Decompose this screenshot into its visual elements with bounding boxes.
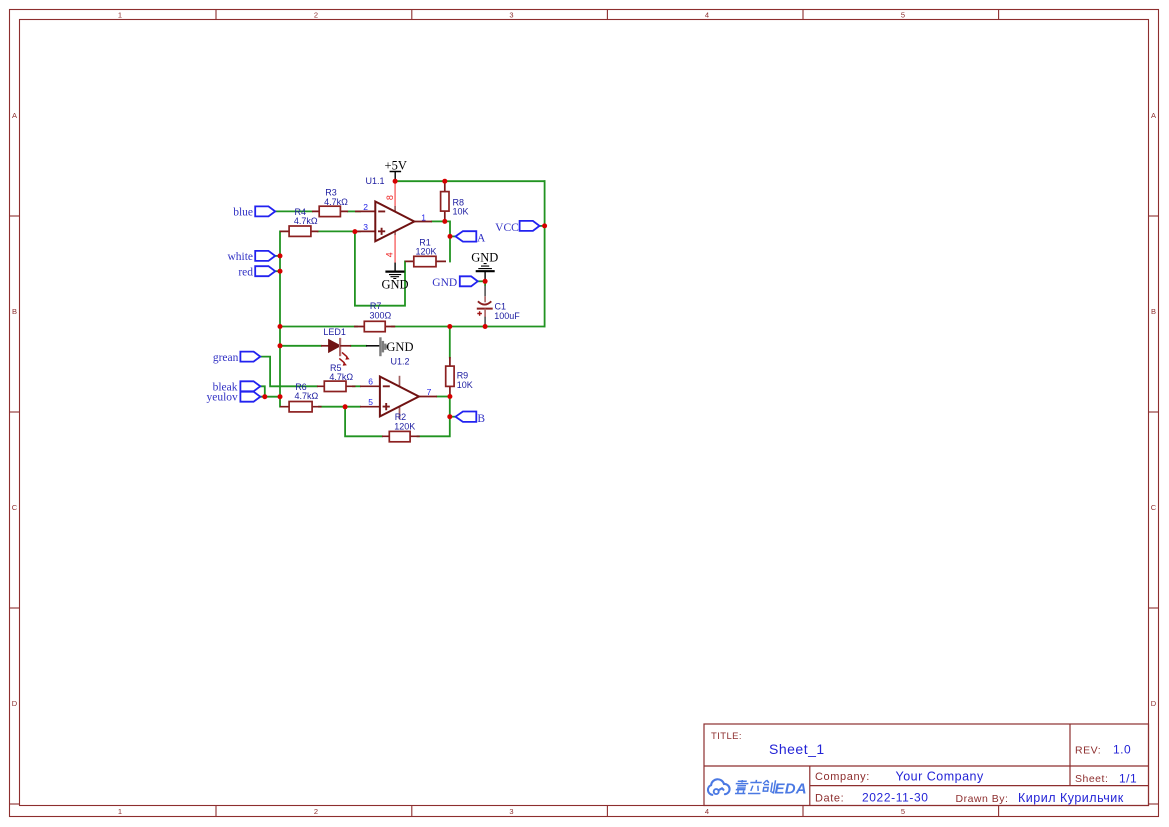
- port bleak: [213, 381, 261, 393]
- wire port B stub: [450, 416, 456, 418]
- junction GND node: [483, 279, 488, 284]
- ground symbol GND under U1.1: [381, 262, 408, 291]
- port red: [238, 266, 275, 278]
- junction R8 top: [442, 179, 447, 184]
- wire grean to R5: [260, 357, 317, 387]
- resistor R7: [354, 301, 395, 332]
- wire blue to R3: [275, 210, 312, 212]
- wire +5V rail top: [395, 180, 545, 182]
- wire LED right: [351, 345, 366, 347]
- junction U1.1 output: [442, 219, 447, 224]
- svg-text:7: 7: [427, 387, 432, 397]
- svg-text:B: B: [477, 413, 485, 425]
- svg-text:TITLE:: TITLE:: [711, 731, 742, 742]
- wire pin7 to junction: [437, 396, 450, 398]
- svg-text:1/1: 1/1: [1119, 772, 1137, 786]
- junction U1.2 pin5: [343, 404, 348, 409]
- svg-text:Кирил Курильчик: Кирил Курильчик: [1018, 791, 1124, 805]
- port A: [456, 231, 487, 244]
- svg-text:2: 2: [314, 807, 318, 816]
- junction port A: [448, 234, 453, 239]
- svg-text:yeulov: yeulov: [206, 391, 238, 403]
- svg-text:8: 8: [385, 195, 395, 200]
- svg-text:100uF: 100uF: [494, 311, 520, 321]
- capacitor C1: [477, 281, 520, 326]
- svg-text:GND: GND: [471, 250, 498, 264]
- svg-text:1.0: 1.0: [1113, 743, 1131, 757]
- svg-text:GND: GND: [432, 277, 457, 289]
- resistor R8: [441, 181, 469, 221]
- svg-text:Date:: Date:: [815, 793, 844, 805]
- resistor R9: [446, 357, 473, 397]
- svg-text:120K: 120K: [394, 421, 415, 431]
- wire R8 output corner: [445, 221, 450, 261]
- junction C1 bottom: [483, 324, 488, 329]
- resistor R6: [280, 382, 322, 412]
- svg-text:6: 6: [368, 377, 373, 387]
- svg-text:10K: 10K: [453, 206, 469, 216]
- junction port VCC: [542, 223, 547, 228]
- ground symbol GND gray at LED: [366, 337, 413, 356]
- wire GND port stub: [478, 280, 485, 282]
- junction +5V rail: [393, 179, 398, 184]
- svg-text:+5V: +5V: [385, 159, 407, 173]
- svg-text:A: A: [12, 111, 17, 120]
- junction yeulov net: [278, 394, 283, 399]
- svg-text:3: 3: [509, 11, 513, 20]
- wire feedback U1.1: [355, 232, 405, 306]
- resistor R3: [312, 188, 348, 217]
- port yeulov: [206, 391, 260, 403]
- svg-text:D: D: [12, 699, 18, 708]
- wire VCC port stub: [540, 225, 545, 227]
- svg-text:EDA: EDA: [775, 781, 807, 798]
- port VCC: [495, 221, 539, 234]
- wire R3 to pin2: [348, 210, 360, 212]
- svg-text:GND: GND: [381, 277, 408, 291]
- svg-text:GND: GND: [386, 340, 413, 354]
- svg-text:4: 4: [705, 11, 709, 20]
- svg-text:A: A: [1151, 111, 1156, 120]
- port B: [456, 412, 486, 425]
- wire net blue vertical x280: [279, 231, 281, 406]
- wire R5 to pin6: [353, 385, 360, 387]
- svg-text:Drawn By:: Drawn By:: [956, 793, 1009, 805]
- svg-text:B: B: [12, 307, 17, 316]
- svg-text:U1.2: U1.2: [391, 356, 410, 366]
- junction port B: [447, 414, 452, 419]
- svg-text:2: 2: [363, 202, 368, 212]
- svg-text:Sheet_1: Sheet_1: [769, 741, 825, 757]
- ground symbol GND above C1: [471, 250, 498, 281]
- port white: [227, 251, 275, 263]
- port blue: [233, 206, 275, 218]
- wire VCC right rail: [544, 181, 546, 326]
- svg-text:5: 5: [901, 807, 905, 816]
- svg-text:C1: C1: [495, 302, 507, 312]
- svg-text:3: 3: [363, 222, 368, 232]
- resistor R5: [317, 363, 356, 391]
- wire R6 to pin5: [319, 406, 360, 408]
- svg-text:4.7kΩ: 4.7kΩ: [295, 391, 319, 401]
- wire red stub: [275, 270, 280, 272]
- svg-text:2: 2: [314, 11, 318, 20]
- wire white stub: [275, 255, 280, 257]
- wire pin1 to R8: [432, 220, 445, 222]
- wire bottom long net right part: [392, 326, 545, 328]
- junction bleak-yeulov: [262, 394, 267, 399]
- junction U1.2 output: [447, 394, 452, 399]
- svg-text:white: white: [227, 251, 253, 263]
- port grean: [213, 352, 260, 364]
- svg-text:Your Company: Your Company: [896, 770, 984, 784]
- svg-text:3: 3: [509, 807, 513, 816]
- svg-text:4.7kΩ: 4.7kΩ: [324, 197, 348, 207]
- junction long net R9: [447, 324, 452, 329]
- wire junction to R9: [449, 327, 451, 358]
- wire LED left: [280, 345, 321, 347]
- svg-text:1: 1: [118, 807, 122, 816]
- svg-text:blue: blue: [233, 207, 253, 219]
- logo: [708, 779, 730, 795]
- svg-text:Company:: Company:: [815, 771, 870, 783]
- svg-text:D: D: [1151, 699, 1157, 708]
- svg-text:4.7kΩ: 4.7kΩ: [294, 216, 318, 226]
- svg-text:1: 1: [421, 212, 426, 222]
- svg-text:Sheet:: Sheet:: [1075, 773, 1108, 785]
- LED LED1: [321, 327, 351, 366]
- title block: [704, 724, 1149, 806]
- op-amp U1.2: [360, 356, 437, 419]
- wire R2 to output corner: [418, 397, 450, 437]
- svg-text:5: 5: [901, 11, 905, 20]
- svg-text:4: 4: [385, 252, 395, 257]
- svg-text:5: 5: [368, 397, 373, 407]
- svg-text:B: B: [1151, 307, 1156, 316]
- wire bottom long net: [280, 326, 357, 328]
- svg-text:VCC: VCC: [495, 222, 519, 234]
- svg-text:4: 4: [705, 807, 709, 816]
- resistor R4: [280, 207, 318, 237]
- resistor R2: [382, 412, 420, 442]
- svg-text:LED1: LED1: [323, 327, 346, 337]
- svg-text:C: C: [1151, 503, 1157, 512]
- wire R4 to pin3: [318, 230, 360, 232]
- port GND: [432, 276, 477, 289]
- wire yeulov to x280: [260, 396, 280, 398]
- svg-text:300Ω: 300Ω: [370, 310, 392, 320]
- op-amp U1.1: [355, 176, 432, 263]
- junction U1.1 pin3: [352, 229, 357, 234]
- junction port white: [278, 253, 283, 258]
- wire bleak down: [260, 386, 265, 396]
- svg-text:C: C: [12, 503, 18, 512]
- wire port A stub: [450, 235, 456, 237]
- svg-text:red: red: [238, 266, 253, 278]
- junction long net left: [278, 324, 283, 329]
- resistor R1: [405, 237, 446, 266]
- svg-text:4.7kΩ: 4.7kΩ: [329, 372, 353, 382]
- svg-text:1: 1: [118, 11, 122, 20]
- svg-text:grean: grean: [213, 352, 239, 364]
- svg-text:U1.1: U1.1: [366, 176, 385, 186]
- svg-text:2022-11-30: 2022-11-30: [862, 791, 929, 805]
- power flag +5V: [385, 159, 407, 182]
- svg-text:10K: 10K: [457, 380, 473, 390]
- junction port red: [278, 269, 283, 274]
- svg-text:120K: 120K: [415, 247, 436, 257]
- wire feedback U1.2: [345, 407, 382, 437]
- junction LED net: [278, 343, 283, 348]
- svg-text:A: A: [477, 232, 486, 244]
- svg-text:REV:: REV:: [1075, 744, 1101, 756]
